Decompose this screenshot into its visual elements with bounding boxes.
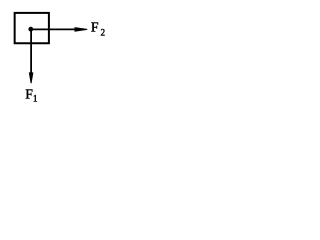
wire: F1 arrow shaft (downward) [30,29,32,74]
node: force application point (dot) [28,27,33,32]
wire: F2 arrow shaft (rightward) [31,28,76,30]
box (square block) [15,13,49,43]
svg-text:F: F [91,20,99,35]
svg-text:1: 1 [33,94,38,104]
arrowhead of F2 (points right) [75,27,88,32]
arrowhead of F1 (points down) [29,72,34,83]
svg-text:2: 2 [101,28,106,38]
